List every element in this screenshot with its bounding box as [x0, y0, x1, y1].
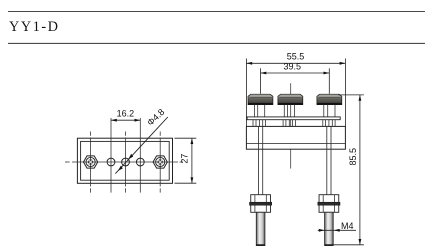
- svg-text:M4: M4: [341, 221, 354, 231]
- svg-text:39.5: 39.5: [284, 62, 302, 72]
- svg-text:Φ4.8: Φ4.8: [145, 107, 166, 128]
- svg-text:YY1-D: YY1-D: [9, 19, 60, 35]
- svg-text:27: 27: [180, 154, 190, 164]
- svg-text:55.5: 55.5: [287, 52, 305, 62]
- svg-text:85.5: 85.5: [348, 148, 358, 166]
- svg-text:16.2: 16.2: [117, 109, 135, 119]
